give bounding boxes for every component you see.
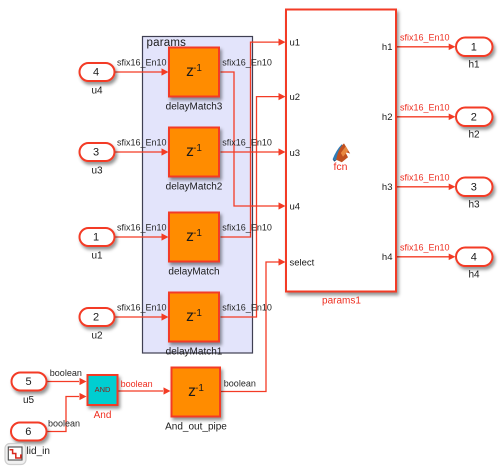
svg-text:sfix16_En10: sfix16_En10 [400, 103, 450, 113]
inport 4 (u4) [80, 63, 115, 97]
inport 5 (u5) [12, 373, 47, 407]
svg-text:u2: u2 [91, 331, 103, 342]
svg-text:boolean: boolean [48, 419, 80, 429]
svg-text:h2: h2 [382, 112, 393, 123]
wire u5 to And [47, 378, 87, 385]
svg-text:-1: -1 [193, 143, 202, 154]
outport 4 (h4) [456, 248, 493, 281]
outport 2 (h2) [456, 108, 493, 141]
svg-text:2: 2 [93, 312, 99, 324]
svg-text:h4: h4 [468, 270, 480, 281]
inport 6 (valid_in) [11, 423, 50, 457]
svg-text:delayMatch2: delayMatch2 [166, 182, 223, 193]
svg-text:6: 6 [25, 426, 31, 438]
svg-text:3: 3 [471, 181, 477, 193]
delay block delayMatch2 [166, 128, 223, 193]
wire And to And_out_pipe [118, 387, 171, 394]
wire u3 to delayMatch2 [115, 148, 169, 155]
wire params1 h4 to outport 4 [396, 254, 456, 261]
inport 2 (u2) [80, 308, 115, 342]
delay block delayMatch1 [166, 293, 223, 358]
svg-text:sfix16_En10: sfix16_En10 [117, 57, 167, 67]
svg-text:AND: AND [95, 385, 111, 394]
svg-text:sfix16_En10: sfix16_En10 [400, 173, 450, 183]
svg-text:u4: u4 [91, 86, 103, 97]
wire u4 to delayMatch3 [115, 68, 169, 75]
svg-text:sfix16_En10: sfix16_En10 [400, 243, 450, 253]
svg-text:u1: u1 [290, 38, 301, 49]
params subsystem area [143, 37, 253, 354]
svg-text:3: 3 [93, 147, 99, 159]
wire delayMatch3 to params1 u4 [221, 72, 286, 210]
svg-text:sfix16_En10: sfix16_En10 [222, 137, 272, 147]
svg-text:h3: h3 [468, 200, 480, 211]
svg-text:delayMatch3: delayMatch3 [166, 102, 223, 113]
svg-text:4: 4 [471, 251, 477, 263]
svg-text:1: 1 [471, 41, 477, 53]
wire params1 h1 to outport 1 [396, 44, 456, 51]
svg-text:-1: -1 [193, 63, 202, 74]
svg-text:boolean: boolean [50, 368, 82, 378]
wire u1 to delayMatch [115, 233, 169, 240]
svg-text:h3: h3 [382, 182, 393, 193]
delay block delayMatch [168, 213, 219, 278]
svg-text:u3: u3 [91, 166, 103, 177]
svg-text:sfix16_En10: sfix16_En10 [117, 222, 167, 232]
svg-text:h4: h4 [382, 252, 393, 263]
svg-text:u2: u2 [290, 92, 301, 103]
svg-text:boolean: boolean [121, 379, 153, 389]
svg-text:sfix16_En10: sfix16_En10 [400, 33, 450, 43]
wire delayMatch2 to params1 u3 [221, 148, 286, 155]
svg-text:sfix16_En10: sfix16_En10 [117, 137, 167, 147]
svg-text:select: select [290, 257, 315, 268]
wire delayMatch to params1 u1 [221, 39, 286, 238]
svg-text:params1: params1 [322, 296, 361, 307]
svg-text:4: 4 [93, 67, 99, 79]
svg-text:delayMatch1: delayMatch1 [166, 347, 223, 358]
svg-text:1: 1 [93, 232, 99, 244]
wire valid_in to And [47, 393, 87, 432]
svg-text:fcn: fcn [333, 161, 347, 173]
svg-text:boolean: boolean [224, 378, 256, 388]
MATLAB fcn icon [333, 143, 351, 173]
svg-text:2: 2 [471, 111, 477, 123]
svg-text:delayMatch: delayMatch [168, 267, 219, 278]
svg-text:h1: h1 [382, 42, 393, 53]
inport 1 (u1) [80, 228, 115, 262]
MATLAB function block params1 [286, 10, 396, 307]
outport 1 (h1) [456, 38, 493, 71]
svg-text:u4: u4 [290, 202, 301, 213]
wire delayMatch1 to params1 u2 [221, 93, 286, 317]
svg-text:-1: -1 [195, 383, 204, 394]
svg-text:h2: h2 [468, 130, 480, 141]
wire And_out_pipe to params1 select [221, 258, 286, 391]
wire u2 to delayMatch1 [115, 313, 169, 320]
logic block And [88, 375, 118, 421]
svg-text:u3: u3 [290, 148, 301, 159]
svg-text:And_out_pipe: And_out_pipe [165, 421, 227, 432]
svg-text:u1: u1 [91, 251, 103, 262]
svg-text:5: 5 [25, 376, 31, 388]
wire params1 h2 to outport 2 [396, 114, 456, 121]
inport 3 (u3) [80, 143, 115, 177]
svg-text:h1: h1 [468, 60, 480, 71]
svg-text:u5: u5 [23, 395, 35, 406]
svg-text:sfix16_En10: sfix16_En10 [222, 222, 272, 232]
delay block delayMatch3 [166, 48, 223, 113]
wire params1 h3 to outport 3 [396, 184, 456, 191]
scope badge icon [5, 444, 26, 465]
svg-text:And: And [94, 410, 112, 421]
outport 3 (h3) [456, 178, 493, 211]
svg-text:-1: -1 [193, 308, 202, 319]
delay block And_out_pipe [165, 368, 227, 433]
svg-text:-1: -1 [193, 228, 202, 239]
svg-text:sfix16_En10: sfix16_En10 [117, 302, 167, 312]
svg-text:sfix16_En10: sfix16_En10 [222, 57, 272, 67]
svg-text:sfix16_En10: sfix16_En10 [222, 302, 272, 312]
